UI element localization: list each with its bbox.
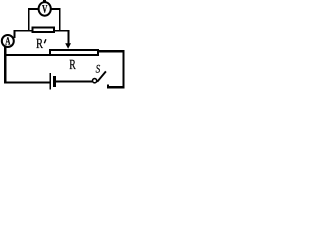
slider arrow onto R xyxy=(65,30,71,49)
wire left rail below ammeter xyxy=(4,47,6,84)
wire bottom left xyxy=(4,82,49,84)
label S xyxy=(96,63,101,75)
svg-text:R: R xyxy=(36,37,43,52)
resistor R' box xyxy=(32,27,53,32)
wire battery to switch xyxy=(56,81,92,83)
svg-text:A: A xyxy=(5,36,10,48)
svg-text:V: V xyxy=(42,4,47,16)
rheostat R box xyxy=(50,50,98,55)
battery short plate xyxy=(53,76,56,87)
switch blade xyxy=(97,71,106,81)
battery long plate xyxy=(49,73,51,89)
wire corner drop to ammeter xyxy=(13,30,15,38)
wire voltmeter left lead xyxy=(28,8,39,10)
ammeter A xyxy=(2,35,14,48)
wire lower-left horizontal to rheostat xyxy=(4,54,49,56)
wire right horizontal from rheostat xyxy=(99,50,125,52)
wire right rail xyxy=(123,50,125,88)
wire voltmeter right lead xyxy=(51,8,61,10)
voltmeter V xyxy=(39,0,51,16)
switch fixed contact nub xyxy=(107,85,109,89)
svg-text:S: S xyxy=(96,63,101,75)
wire voltmeter left drop xyxy=(28,8,30,32)
wire voltmeter right drop xyxy=(59,8,61,32)
wire top main left segment xyxy=(13,30,33,32)
wire top main right segment xyxy=(54,30,69,32)
label R' xyxy=(36,37,46,52)
switch pivot circle xyxy=(93,79,97,83)
svg-text:R: R xyxy=(69,58,76,73)
wire bottom right xyxy=(107,86,124,88)
label R xyxy=(69,58,76,73)
